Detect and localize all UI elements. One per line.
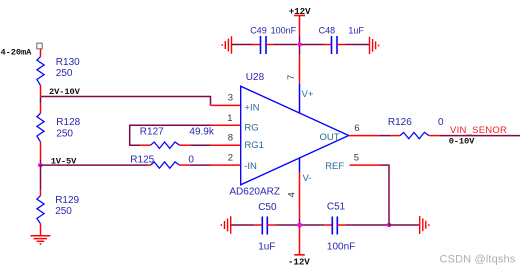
wire into 1V-5V node [40, 159, 42, 165]
bottom rail wire left [231, 224, 255, 226]
svg-text:C51: C51 [327, 202, 346, 213]
svg-text:2: 2 [228, 153, 233, 164]
svg-text:4-20mA: 4-20mA [1, 48, 33, 58]
svg-text:2V-10V: 2V-10V [49, 87, 81, 97]
wire junction to C51 [302, 224, 325, 226]
C48 right lead [337, 44, 345, 46]
wire 1V-5V down to R129 [40, 165, 42, 190]
R129 bottom lead [40, 224, 42, 236]
wire 2V-10V down to R128 [40, 97, 42, 104]
pin 7 red segment [299, 55, 301, 83]
R127 left lead [140, 144, 150, 146]
svg-text:REF: REF [325, 161, 344, 172]
C50 right lead [267, 224, 275, 226]
svg-text:0-10V: 0-10V [449, 136, 475, 146]
junction dot +12V rail [298, 43, 302, 46]
R126 right lead [429, 135, 440, 137]
wire C49 to junction [274, 44, 298, 46]
R128 bottom lead [40, 142, 42, 160]
capacitor C51 [332, 217, 337, 235]
R125 right lead [180, 164, 190, 166]
op-amp U1 AD620ARZ triangle [241, 86, 349, 185]
resistor R126 [400, 132, 429, 138]
wire pin1 loop [211, 124, 241, 126]
ground top-right rotated [370, 37, 379, 54]
svg-text:+IN: +IN [244, 102, 259, 113]
resistor R128 [37, 113, 44, 142]
svg-text:U28: U28 [246, 72, 265, 83]
power -12V bar [294, 254, 305, 256]
pin 2 lead [211, 164, 241, 166]
svg-text:V-: V- [303, 173, 312, 184]
svg-text:AD620ARZ: AD620ARZ [229, 186, 280, 197]
svg-text:100nF: 100nF [271, 26, 297, 36]
wire OUT to R126 [380, 135, 391, 137]
ground top-left rotated [222, 36, 231, 53]
wire 2V-10V horizontal to pin3 corner [41, 97, 211, 106]
svg-text:0: 0 [438, 117, 444, 128]
pin 6 OUT lead [349, 135, 380, 137]
resistor R125 [151, 162, 180, 168]
wire R126 to VIN_SENOR [440, 135, 520, 137]
junction dot REF rail [387, 223, 391, 227]
ground bottom-left rotated [221, 216, 230, 234]
junction dot 1V-5V [38, 164, 42, 167]
terminal P1 4-20mA input [37, 43, 42, 49]
capacitor C50 [262, 217, 267, 235]
wire V+ to +12V junction [299, 35, 301, 56]
R126 left lead [391, 135, 400, 137]
resistor R127 [151, 142, 180, 148]
svg-text:OUT: OUT [319, 132, 339, 143]
svg-text:7: 7 [286, 75, 297, 80]
pin 5 REF lead [350, 164, 380, 166]
C51 right lead [337, 224, 345, 226]
wire C50 to junction [275, 224, 297, 226]
wire R130 to node 2V-10V [40, 85, 42, 96]
resistor R129 [37, 196, 44, 224]
wire REF to rail [380, 165, 389, 225]
pin 7 blue segment [299, 83, 301, 113]
svg-text:1uF: 1uF [348, 26, 364, 36]
C51 left lead [324, 224, 332, 226]
capacitor C48 [332, 36, 338, 54]
pin 8 lead [211, 144, 241, 146]
svg-text:-12V: -12V [288, 256, 310, 267]
C48 left lead [324, 44, 332, 46]
svg-text:+12V: +12V [289, 6, 311, 17]
svg-text:49.9k: 49.9k [189, 127, 214, 138]
R127 right lead [180, 144, 191, 146]
wire V- junction [299, 218, 301, 228]
ground bottom-right rotated [420, 216, 429, 234]
earth ground GND1 [31, 236, 51, 244]
R128 top lead [40, 104, 42, 114]
svg-text:100nF: 100nF [327, 242, 355, 253]
svg-text:3: 3 [228, 93, 233, 104]
svg-text:1: 1 [227, 113, 232, 124]
wire 1V-5V to R125 [41, 164, 148, 166]
svg-text:-IN: -IN [244, 161, 257, 172]
resistor R130 [37, 57, 44, 86]
svg-text:C48: C48 [319, 26, 336, 36]
svg-text:1uF: 1uF [258, 241, 275, 252]
svg-text:RG: RG [244, 122, 258, 133]
R129 top lead [40, 190, 42, 195]
svg-text:250: 250 [56, 68, 73, 79]
C49 left lead [253, 44, 261, 46]
C50 left lead [254, 224, 262, 226]
svg-text:VIN_SENOR: VIN_SENOR [450, 125, 507, 136]
svg-text:6: 6 [354, 123, 359, 134]
svg-text:CSDN @ltqshs: CSDN @ltqshs [440, 253, 516, 265]
wire junction to C48 [302, 44, 324, 46]
pin 3 lead [211, 104, 241, 106]
svg-text:250: 250 [55, 206, 72, 217]
svg-text:5: 5 [354, 153, 359, 164]
power +12V lead [299, 16, 301, 35]
C49 right lead [266, 44, 274, 46]
svg-text:R129: R129 [55, 195, 79, 206]
wire R125 to pin2 [190, 164, 211, 166]
wire R127 to pin8 [191, 144, 211, 146]
wire terminal to R130 [40, 49, 42, 57]
wire C51 to REF junction [345, 224, 389, 226]
pin 4 blue segment [299, 158, 301, 172]
svg-text:0: 0 [188, 155, 194, 166]
svg-text:C50: C50 [258, 202, 277, 213]
svg-text:R130: R130 [56, 57, 80, 68]
svg-text:R126: R126 [388, 117, 412, 128]
svg-text:R125: R125 [130, 154, 154, 165]
wire junction to ground right [389, 224, 420, 226]
svg-text:C49: C49 [250, 26, 267, 36]
svg-text:250: 250 [56, 129, 73, 140]
svg-text:V+: V+ [302, 89, 314, 100]
power +12V bar [294, 15, 305, 17]
svg-text:R127: R127 [140, 127, 164, 138]
power -12V lead [299, 228, 301, 255]
svg-text:RG1: RG1 [244, 140, 264, 151]
svg-text:4: 4 [287, 192, 298, 197]
junction dot -12V rail [298, 223, 302, 227]
svg-text:8: 8 [228, 133, 233, 144]
wire C48 to ground [345, 44, 370, 46]
R125 left lead [148, 164, 151, 166]
svg-text:R128: R128 [56, 117, 80, 128]
wire pin1 to corner [130, 125, 211, 145]
pin 4 red segment [299, 172, 301, 218]
top rail wire left [232, 44, 253, 46]
capacitor C49 [261, 36, 267, 54]
